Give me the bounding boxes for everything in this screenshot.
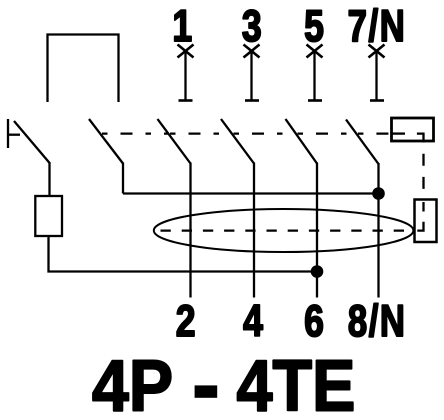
supply loop (staple) — [48, 35, 119, 103]
wire pole 4 to terminal 8/N — [377, 163, 379, 298]
junction dot on pole 6 line — [311, 265, 324, 278]
actuator dashed line (mechanical linkage) — [101, 132, 392, 134]
pole 3 contact blade — [286, 119, 318, 164]
wire terminal 7/N — [375, 51, 377, 101]
terminal X mark 1 — [178, 45, 194, 58]
svg-text:1: 1 — [172, 1, 192, 51]
resistor R (test resistor) — [35, 196, 62, 236]
wire resistor to bottom bus — [49, 236, 318, 272]
wire test line to neutral — [123, 192, 379, 194]
terminal bar 3 — [245, 99, 259, 102]
terminal X mark 7/N — [369, 45, 385, 58]
pole 4 (neutral) contact blade — [346, 120, 379, 165]
terminal X mark 3 — [244, 45, 260, 58]
svg-text:4: 4 — [243, 296, 263, 346]
wire terminal 3 — [250, 51, 252, 101]
svg-text:4P: 4P — [92, 345, 173, 420]
dashed link test button to trip relay — [422, 141, 424, 200]
test button internal contact — [392, 134, 424, 140]
svg-text:3: 3 — [242, 1, 262, 51]
wire handle pole to resistor — [48, 163, 50, 197]
svg-text:8/N: 8/N — [348, 297, 407, 346]
terminal X mark 5 — [307, 45, 323, 58]
svg-text:5: 5 — [304, 1, 324, 51]
junction dot on 8/N line — [372, 187, 385, 200]
svg-text:6: 6 — [304, 296, 324, 346]
wire terminal 5 — [313, 51, 315, 101]
handle pole contact blade — [14, 121, 50, 164]
terminal bar 5 — [308, 99, 322, 102]
pole 2 contact blade — [221, 119, 254, 164]
caption hyphen — [195, 385, 218, 397]
wire test contact down — [122, 163, 124, 194]
transformer secondary dashed axis — [161, 229, 415, 231]
current transformer core — [154, 209, 414, 252]
wire pole 3 to terminal 6 — [316, 163, 318, 298]
trip relay internal dashed link — [417, 202, 423, 231]
trip relay coil — [415, 200, 437, 243]
wire terminal 1 — [184, 51, 186, 101]
test button T — [392, 118, 434, 141]
handle lever — [8, 119, 20, 148]
svg-text:7/N: 7/N — [348, 2, 407, 51]
wire pole 1 to terminal 2 — [189, 163, 191, 298]
svg-text:2: 2 — [176, 296, 196, 346]
terminal bar 1 — [179, 99, 193, 102]
svg-text:4TE: 4TE — [236, 345, 355, 420]
pole 1 contact blade — [158, 119, 191, 164]
test contact blade — [89, 119, 123, 164]
terminal bar 7/N — [370, 99, 384, 102]
wire pole 2 to terminal 4 — [253, 163, 255, 298]
